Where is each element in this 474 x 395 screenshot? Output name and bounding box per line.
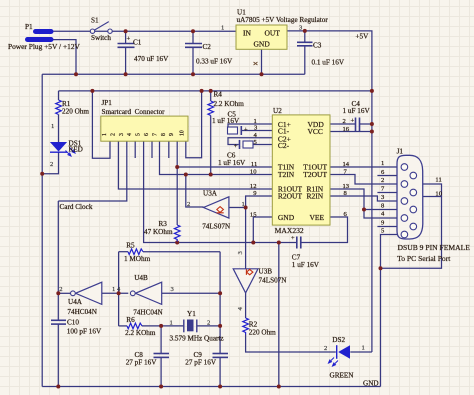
svg-text:220 Ohm: 220 Ohm <box>249 329 276 337</box>
IC U2 MAX232 <box>250 107 350 235</box>
junction DB9 gnd <box>379 266 383 270</box>
wire: C2 branch <box>192 31 194 43</box>
svg-text:1 uF 16V: 1 uF 16V <box>212 117 240 125</box>
wire: DB9 shell pins 11,10 to ground <box>381 184 442 268</box>
wire: left vertical ground from rail to bottom rail <box>41 74 43 386</box>
wire: MAX232 T1OUT pin14 to DB9 pin1 <box>330 166 401 168</box>
svg-text:R6: R6 <box>126 316 135 324</box>
svg-text:+5V: +5V <box>356 33 370 41</box>
svg-text:1: 1 <box>242 201 245 208</box>
capacitor C4 <box>356 118 360 132</box>
svg-text:74HC04N: 74HC04N <box>67 308 97 316</box>
wire: R4 branch from +5V rail <box>210 91 212 101</box>
svg-text:11: 11 <box>435 177 441 184</box>
svg-text:T2OUT: T2OUT <box>303 170 327 179</box>
wire: U4A input to U4B output <box>102 292 129 294</box>
wire: R6 to crystal node <box>119 325 127 327</box>
svg-text:+: + <box>244 127 248 134</box>
svg-text:U4A: U4A <box>68 298 83 306</box>
power plug P1 <box>8 23 81 51</box>
svg-text:10: 10 <box>250 168 257 175</box>
svg-text:J1: J1 <box>397 148 404 156</box>
wire: bottom ground rail <box>42 386 380 388</box>
wire: JP1 pin2 to MAX232 R1OUT <box>118 141 272 189</box>
wire: JP1 pin6 stub <box>151 141 153 158</box>
junction VCC <box>370 130 374 134</box>
svg-text:2: 2 <box>381 177 384 184</box>
wire: C3 branch <box>304 31 306 42</box>
wire: JP1 pin7 to T2IN line <box>160 141 273 174</box>
wire: U1 pin3 +5V to right vertical <box>287 31 372 91</box>
wire: MAX232 GND pin15 drop to GND line <box>253 217 272 243</box>
svg-text:13: 13 <box>343 183 350 190</box>
junction C2 top <box>191 29 195 33</box>
junction gnd drop <box>277 241 281 245</box>
svg-text:8: 8 <box>161 133 167 136</box>
svg-text:R3: R3 <box>159 220 168 228</box>
resistor R6 <box>127 323 142 329</box>
svg-text:VCC: VCC <box>308 127 323 136</box>
svg-text:+: + <box>127 36 131 43</box>
svg-text:15: 15 <box>250 212 257 219</box>
svg-text:0.33 uF 16V: 0.33 uF 16V <box>196 58 233 66</box>
junction C8 top <box>159 324 163 328</box>
wire: C1 branch <box>125 31 127 43</box>
wire: U4B input line <box>162 292 220 294</box>
wire: MAX232 R1IN pin13 to DB9 pin8 and pin4 <box>330 189 401 218</box>
wire: U3A input drop from T2IN line <box>186 175 204 208</box>
svg-text:C3: C3 <box>313 42 322 50</box>
svg-text:Switch: Switch <box>91 34 111 42</box>
wire: GND line drop to bottom rail <box>278 243 280 387</box>
svg-text:5: 5 <box>136 133 142 136</box>
junction C9 bottom rail <box>218 385 222 389</box>
svg-text:2.2 KOhm: 2.2 KOhm <box>125 329 156 337</box>
svg-text:C2-: C2- <box>278 141 290 150</box>
svg-text:C10: C10 <box>67 319 79 327</box>
svg-text:11: 11 <box>251 161 257 168</box>
inverter U4B <box>117 274 175 317</box>
wire: U1 GND pin to rail <box>261 49 263 74</box>
wire: crystal right lead <box>197 325 220 327</box>
svg-text:1: 1 <box>170 320 173 327</box>
wire: U3B output through R2 to DS2 <box>245 293 247 318</box>
connector J1 DSUB 9 PIN FEMALE <box>381 148 470 264</box>
svg-text:R2OUT: R2OUT <box>278 192 303 201</box>
svg-text:1: 1 <box>112 286 115 293</box>
capacitor C5 <box>212 111 248 136</box>
capacitor C8 <box>154 354 170 358</box>
svg-text:1: 1 <box>362 345 365 352</box>
junction T1IN pin9 <box>175 165 179 169</box>
buffer U3A <box>187 190 245 231</box>
wire: R5 feedback loop <box>119 251 128 253</box>
junction jp1 pin1 rail <box>90 89 94 93</box>
svg-text:74LS07N: 74LS07N <box>259 277 288 285</box>
svg-text:74HC04N: 74HC04N <box>133 309 163 317</box>
wire: DB9 pin5 to ground drop <box>381 235 402 387</box>
wire: JP1 pin5 to GND line <box>144 141 297 242</box>
junction C1 bottom <box>124 72 128 76</box>
svg-text:74LS07N: 74LS07N <box>202 223 231 231</box>
svg-text:27 pF 16V: 27 pF 16V <box>185 359 217 367</box>
svg-text:RED: RED <box>69 146 83 154</box>
wire: DS2 anode to +5V vertical <box>350 351 372 353</box>
svg-text:2: 2 <box>50 161 53 168</box>
resistor R4 <box>208 101 214 116</box>
svg-text:GND: GND <box>363 380 379 388</box>
svg-text:220 Ohm: 220 Ohm <box>62 108 89 116</box>
svg-text:uA7805 +5V Voltage Regulator: uA7805 +5V Voltage Regulator <box>237 16 329 24</box>
wire: MAX232 T2OUT pin7 jog to DB9 pin2 <box>330 175 401 185</box>
inverter U4A <box>59 282 115 316</box>
wire: C5 connection to MAX232 pins 1,3 <box>228 124 272 127</box>
svg-text:DS2: DS2 <box>332 336 345 344</box>
wire: JP1 pin9 through T1IN junction down to R3 <box>177 141 272 167</box>
svg-text:+: + <box>291 235 295 242</box>
resistor R2 <box>243 318 249 335</box>
resistor R1 <box>56 100 62 115</box>
svg-text:2: 2 <box>187 201 190 208</box>
junction R4 rail <box>209 89 213 93</box>
svg-text:T2IN: T2IN <box>278 170 295 179</box>
capacitor C2 <box>185 44 202 48</box>
svg-text:Power Plug +5V / +12V: Power Plug +5V / +12V <box>8 42 81 51</box>
no-ERC mark near U1 gnd <box>254 62 258 65</box>
svg-text:C2: C2 <box>203 43 212 51</box>
wire: MAX232 R2OUT pin9 down to U3B input <box>246 196 273 269</box>
svg-text:U2: U2 <box>273 107 282 115</box>
svg-text:GREEN: GREEN <box>330 372 355 380</box>
capacitor C3 <box>297 42 313 46</box>
svg-text:10: 10 <box>435 191 442 198</box>
svg-text:To PC Serial Port: To PC Serial Port <box>397 254 451 263</box>
junction C4 right <box>370 122 374 126</box>
junction U3A out <box>244 206 248 210</box>
svg-text:3: 3 <box>119 133 125 136</box>
wire: DB9 pin7 stub <box>377 192 410 194</box>
svg-text:2: 2 <box>59 286 62 293</box>
junction U1 gnd <box>260 72 264 76</box>
svg-text:1: 1 <box>381 160 384 167</box>
capacitor C6 <box>218 140 253 167</box>
svg-text:9: 9 <box>169 133 175 136</box>
svg-text:2: 2 <box>324 345 327 352</box>
svg-text:R5: R5 <box>126 242 135 250</box>
wire: MAX232 R2IN pin8 to DB9 pin3 <box>330 196 401 201</box>
svg-text:JP1: JP1 <box>102 99 113 107</box>
svg-text:1: 1 <box>221 25 224 32</box>
capacitor C1 <box>118 44 135 48</box>
svg-text:C1: C1 <box>133 39 142 47</box>
svg-text:U4B: U4B <box>134 274 148 282</box>
svg-text:VEE: VEE <box>310 213 325 222</box>
svg-text:2: 2 <box>343 118 346 125</box>
smartcard connector JP1 <box>101 99 188 141</box>
buffer U3B <box>233 251 287 311</box>
svg-text:U3A: U3A <box>203 190 218 198</box>
capacitor C9 <box>213 354 229 358</box>
svg-text:4: 4 <box>127 133 133 136</box>
svg-text:6: 6 <box>144 133 150 136</box>
svg-text:16: 16 <box>343 126 350 133</box>
wire: oscillator U4A output to clock vertical <box>58 292 70 294</box>
junction C1 top <box>124 29 128 33</box>
svg-text:100 pF 16V: 100 pF 16V <box>67 328 102 336</box>
svg-text:U3B: U3B <box>259 268 273 276</box>
wire: C8 branch <box>160 326 162 353</box>
junction C3 top <box>303 29 307 33</box>
wire: +5V rail <box>59 90 372 92</box>
wire: +5V long vertical down to DS2 <box>371 91 373 352</box>
svg-text:R4: R4 <box>214 91 223 99</box>
wire: JP1 pin3 to card clock line <box>58 141 127 201</box>
wire: JP1 pin4 stub <box>134 141 136 158</box>
svg-text:MAX232: MAX232 <box>275 226 304 235</box>
wire: MAX232 VCC pin16 to +5V vertical <box>330 131 372 133</box>
svg-text:0.1 uF 16V: 0.1 uF 16V <box>312 59 345 67</box>
svg-text:7: 7 <box>152 133 158 136</box>
junction gnd rail <box>277 385 281 389</box>
resistor R5 <box>128 249 143 255</box>
wire: JP1 pin1 jog to +5V rail <box>92 91 110 158</box>
svg-text:1 MOhm: 1 MOhm <box>124 255 151 263</box>
wire: MAX232 VDD pin2 to C4 <box>330 123 355 125</box>
resistor R3 <box>174 225 180 242</box>
svg-text:Y1: Y1 <box>187 310 196 318</box>
svg-text:+: + <box>351 118 355 125</box>
junction +5V corner <box>370 89 374 93</box>
svg-text:GND: GND <box>278 213 295 222</box>
junction gnd15 <box>251 241 255 245</box>
svg-text:Card Clock: Card Clock <box>60 203 93 211</box>
svg-text:GND: GND <box>254 40 271 49</box>
LED DS1 <box>50 140 83 169</box>
svg-text:12: 12 <box>250 183 257 190</box>
capacitor C7 <box>297 237 301 249</box>
junction C9 top <box>218 324 222 328</box>
wire: U3A output to R2OUT drop <box>229 207 246 209</box>
svg-text:2.2 KOhm: 2.2 KOhm <box>214 100 245 108</box>
svg-text:P1: P1 <box>25 23 33 31</box>
svg-text:R2IN: R2IN <box>307 192 324 201</box>
svg-text:1: 1 <box>102 133 108 136</box>
junction jp1 pin10 rail <box>200 89 204 93</box>
wire: DS1 cathode to ground vertical <box>42 152 58 174</box>
junction C8 bottom rail <box>159 385 163 389</box>
svg-text:R2: R2 <box>249 321 258 329</box>
wire: JP1 pin8 stub <box>168 141 170 158</box>
svg-text:2: 2 <box>207 320 210 327</box>
junction DS1 gnd <box>40 172 44 176</box>
wire: C7 to VEE pin6 <box>301 217 348 243</box>
junction R5 left <box>117 291 121 295</box>
svg-text:OUT: OUT <box>265 29 281 38</box>
wire: JP1 pin10 jog to +5V rail <box>186 91 202 158</box>
junction C10 bottom rail <box>56 385 60 389</box>
capacitor C10 <box>51 320 66 324</box>
svg-text:DSUB 9 PIN FEMALE: DSUB 9 PIN FEMALE <box>398 243 471 252</box>
svg-text:1 uF 16V: 1 uF 16V <box>218 159 246 167</box>
junction P1 return <box>74 72 78 76</box>
svg-text:+: + <box>234 143 238 150</box>
svg-text:470 uF 16V: 470 uF 16V <box>134 55 169 63</box>
crystal Y1 <box>170 310 224 343</box>
wire: DB9 pin6 stub <box>377 175 410 177</box>
wire: card clock vertical with C10 to bottom rail <box>57 201 59 320</box>
wire: DB9 pin9 stub <box>377 226 410 228</box>
svg-text:Smartcard Connector: Smartcard Connector <box>102 108 166 116</box>
svg-text:1: 1 <box>51 123 54 130</box>
wire: main +V top wire from plug to U1 <box>53 30 236 32</box>
svg-text:10: 10 <box>180 130 186 136</box>
svg-text:S1: S1 <box>91 17 99 25</box>
svg-text:2: 2 <box>110 133 116 136</box>
junction U3A in <box>184 173 188 177</box>
svg-text:1 uF 16V: 1 uF 16V <box>292 261 320 269</box>
wire: P1 bottom bar to ground rail <box>53 40 76 75</box>
switch S1 <box>90 22 112 34</box>
svg-text:IN: IN <box>243 29 251 38</box>
wire: C9 branch <box>219 326 221 353</box>
wire: R1 branch from +5V rail <box>58 91 60 100</box>
LED DS2 <box>324 336 365 380</box>
junction clock out <box>56 291 60 295</box>
wire: C6 connection to MAX232 pins 4,5 <box>228 138 272 145</box>
junction R5 right <box>218 291 222 295</box>
svg-text:27 pF 16V: 27 pF 16V <box>126 359 158 367</box>
junction R4 bottom <box>209 173 213 177</box>
svg-text:1 uF 16V: 1 uF 16V <box>343 107 371 115</box>
wire: top ground rail <box>42 73 305 75</box>
svg-text:14: 14 <box>343 161 350 168</box>
junction DB9 pin8 <box>362 208 366 212</box>
voltage regulator U1 <box>221 9 328 50</box>
svg-text:3.579 MHz Quartz: 3.579 MHz Quartz <box>170 335 224 343</box>
junction C2 bottom <box>191 72 195 76</box>
svg-text:47 KOhm: 47 KOhm <box>144 228 173 236</box>
junction R3 gnd <box>175 241 179 245</box>
